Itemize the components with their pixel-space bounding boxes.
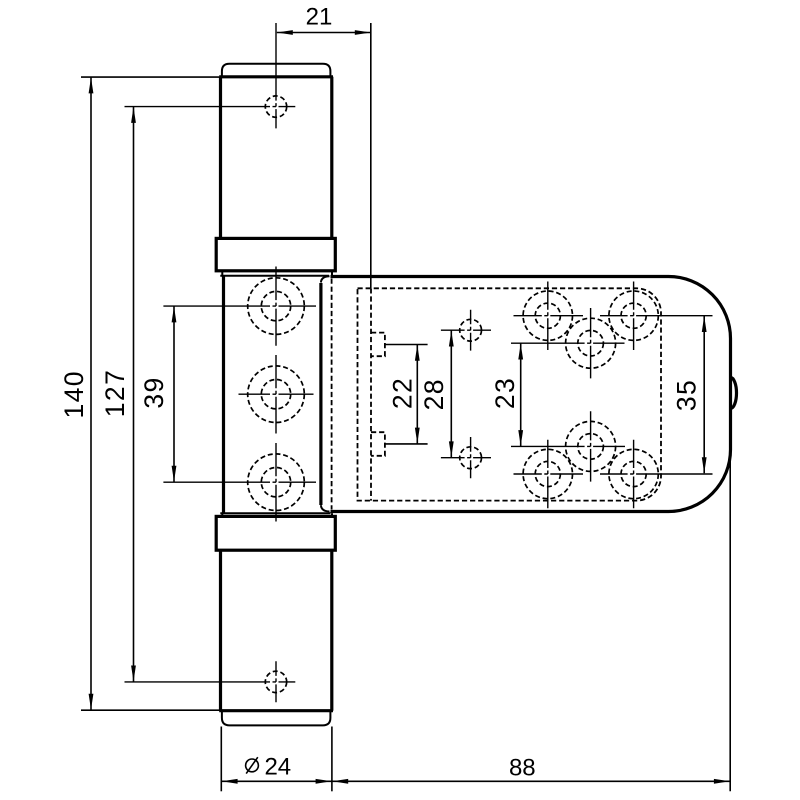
dimension dia24 right arrow xyxy=(316,779,332,784)
barrel bottom edge xyxy=(219,709,333,712)
screw hole middle-bottom vertical centerline xyxy=(590,411,592,481)
small pilot hole bottom xyxy=(460,447,482,469)
lower collar xyxy=(216,516,335,550)
knuckle hole 2 outer circle xyxy=(248,366,305,423)
knuckle hole 1 vertical centerline xyxy=(275,267,277,346)
svg-text:28: 28 xyxy=(419,378,449,410)
upper barrel right edge xyxy=(330,77,333,239)
upper collar step tick right xyxy=(331,271,333,276)
dimension 140 bottom arrow xyxy=(89,694,94,710)
lower barrel right edge xyxy=(330,550,333,711)
svg-text:39: 39 xyxy=(139,376,169,408)
screw hole middle-top outer circle xyxy=(566,318,616,368)
dowel tab top xyxy=(371,333,385,357)
dimension 88 left arrow xyxy=(332,779,348,784)
dimension 127 bottom arrow xyxy=(131,666,136,682)
dimension 140 bottom extension line xyxy=(81,709,220,711)
screw hole bottom-right outer circle xyxy=(609,449,658,498)
leaf-to-channel fillet bottom xyxy=(321,505,330,511)
screw hole top-left outer circle xyxy=(523,291,572,340)
frame leaf channel bottom edge xyxy=(220,512,330,514)
mortise recess dashed outline xyxy=(358,288,662,500)
upper collar step tick left xyxy=(221,271,223,276)
svg-text:23: 23 xyxy=(490,377,520,409)
lower collar step tick right xyxy=(331,513,333,516)
upper barrel hole horizontal centerline (127 extension) xyxy=(125,106,296,108)
screw hole bottom-right vertical centerline xyxy=(633,440,635,508)
dowel tab bottom xyxy=(371,432,385,456)
dimension 88 right extension line xyxy=(729,450,731,791)
lower collar step tick left xyxy=(221,513,223,516)
screw hole top-right horizontal centerline (35 extension) xyxy=(600,315,713,317)
screw hole bottom-left outer circle xyxy=(523,449,572,498)
dimension dia24 right extension line xyxy=(331,727,333,792)
screw hole middle-top vertical centerline xyxy=(590,308,592,378)
hinge pin cover bump on leaf right edge xyxy=(731,378,737,409)
small pilot hole top vertical centerline xyxy=(470,310,472,351)
dimension 23 bottom arrow xyxy=(518,430,523,446)
dimension 28 bottom arrow xyxy=(449,441,454,457)
small pilot hole top xyxy=(460,319,482,341)
dimension 21 left arrow xyxy=(277,30,293,35)
dimension 39 bottom arrow xyxy=(172,466,177,482)
lower barrel screw hole circle xyxy=(265,671,286,692)
dimension 22 top arrow xyxy=(415,345,420,361)
dimension 35 bottom arrow xyxy=(702,457,707,473)
dimension dia24 diameter symbol xyxy=(246,759,259,772)
dimension 21 right extension line xyxy=(370,23,372,288)
dimension 140 dimension line xyxy=(90,77,92,709)
dimension 22 bottom arrow xyxy=(415,428,420,444)
screw hole top-right outer circle xyxy=(609,291,658,340)
dimension 21 right arrow xyxy=(355,30,371,35)
dimension 22 bottom reference line xyxy=(385,443,428,445)
frame leaf channel right edge xyxy=(319,283,322,505)
knuckle hole 2 inner circle xyxy=(261,380,290,409)
screw hole top-left vertical centerline xyxy=(547,282,549,351)
screw hole top-right inner circle xyxy=(621,303,646,328)
knuckle hole 1 outer circle xyxy=(248,278,305,335)
svg-text:24: 24 xyxy=(264,753,291,780)
screw hole bottom-right inner circle xyxy=(621,461,646,486)
dimension 23 top arrow xyxy=(518,344,523,360)
screw hole bottom-left horizontal centerline xyxy=(514,473,584,475)
knuckle hole 3 vertical centerline xyxy=(275,443,277,522)
screw hole middle-bottom outer circle xyxy=(566,421,616,471)
hinge pin top cap xyxy=(222,64,331,77)
dimension 39 dimension line xyxy=(173,306,175,481)
hidden leaf edge behind knuckle xyxy=(331,279,333,510)
dimension dia24 left extension line xyxy=(220,727,222,792)
dimension 22 dimension line xyxy=(416,345,418,444)
dimension 35 dimension line xyxy=(703,316,705,473)
dimension 22 top reference line xyxy=(385,344,428,346)
dimension 39 top arrow xyxy=(172,306,177,322)
dimension 140 top extension line xyxy=(81,76,219,78)
frame leaf channel left edge xyxy=(222,276,225,514)
screw hole top-right vertical centerline xyxy=(633,282,635,351)
screw hole middle-top horizontal centerline (23 extension) xyxy=(511,342,625,344)
small pilot hole top horizontal centerline (28 extension) xyxy=(441,329,491,331)
frame leaf channel top edge xyxy=(220,275,329,277)
dimension 140 top arrow xyxy=(89,77,94,93)
screw hole middle-top inner circle xyxy=(578,330,604,356)
door leaf plate outline xyxy=(331,277,731,512)
knuckle hole 2 horizontal centerline xyxy=(239,393,314,395)
knuckle hole 3 horizontal centerline (39 extension) xyxy=(163,481,316,483)
screw hole bottom-left inner circle xyxy=(535,461,560,486)
dimension 23 dimension line xyxy=(520,344,522,447)
small pilot hole bottom vertical centerline xyxy=(470,437,472,478)
screw hole top-left inner circle xyxy=(535,303,560,328)
upper barrel left edge xyxy=(219,77,222,239)
svg-text:140: 140 xyxy=(59,370,89,418)
screw hole top-left horizontal centerline xyxy=(514,315,584,317)
knuckle hole 2 vertical centerline xyxy=(275,355,277,434)
dimension dia24 left arrow xyxy=(222,779,238,784)
svg-text:22: 22 xyxy=(387,377,417,409)
svg-text:21: 21 xyxy=(306,4,333,31)
dimension 28 top arrow xyxy=(449,331,454,347)
screw hole middle-bottom inner circle xyxy=(578,434,604,460)
lower barrel hole vertical centerline xyxy=(275,661,277,702)
screw hole bottom-left vertical centerline xyxy=(547,440,549,508)
knuckle hole 1 horizontal centerline (39 extension) xyxy=(163,305,316,307)
dimension 127 dimension line xyxy=(133,107,135,682)
knuckle hole 3 inner circle xyxy=(261,468,290,497)
screw hole middle-bottom horizontal centerline (23 extension) xyxy=(511,445,625,447)
upper barrel hole vertical centerline (21 extension) xyxy=(275,23,277,128)
leaf-to-channel fillet top xyxy=(321,276,330,282)
knuckle hole 1 inner circle xyxy=(261,291,290,320)
svg-text:127: 127 xyxy=(100,369,130,417)
milling edge dashed line xyxy=(370,288,372,500)
dimension 88 right arrow xyxy=(714,779,730,784)
lower barrel left edge xyxy=(219,550,222,711)
dimension 28 dimension line xyxy=(450,331,452,458)
upper collar xyxy=(216,238,335,270)
dimension 88 dimension line xyxy=(332,780,730,782)
upper barrel screw hole circle xyxy=(265,96,286,117)
barrel top edge xyxy=(219,75,333,78)
svg-text:88: 88 xyxy=(509,754,536,781)
dimension 21 dimension line xyxy=(277,32,371,34)
svg-text:35: 35 xyxy=(672,379,702,411)
dimension 127 top arrow xyxy=(131,107,136,123)
hinge pin bottom cap xyxy=(222,711,331,726)
lower barrel hole horizontal centerline (127 extension) xyxy=(125,681,296,683)
dimension dia24 dimension line xyxy=(221,780,332,782)
small pilot hole bottom horizontal centerline (28 extension) xyxy=(441,457,491,459)
knuckle hole 3 outer circle xyxy=(248,454,305,511)
dimension 35 top arrow xyxy=(702,316,707,332)
screw hole bottom-right horizontal centerline (35 extension) xyxy=(600,473,713,475)
